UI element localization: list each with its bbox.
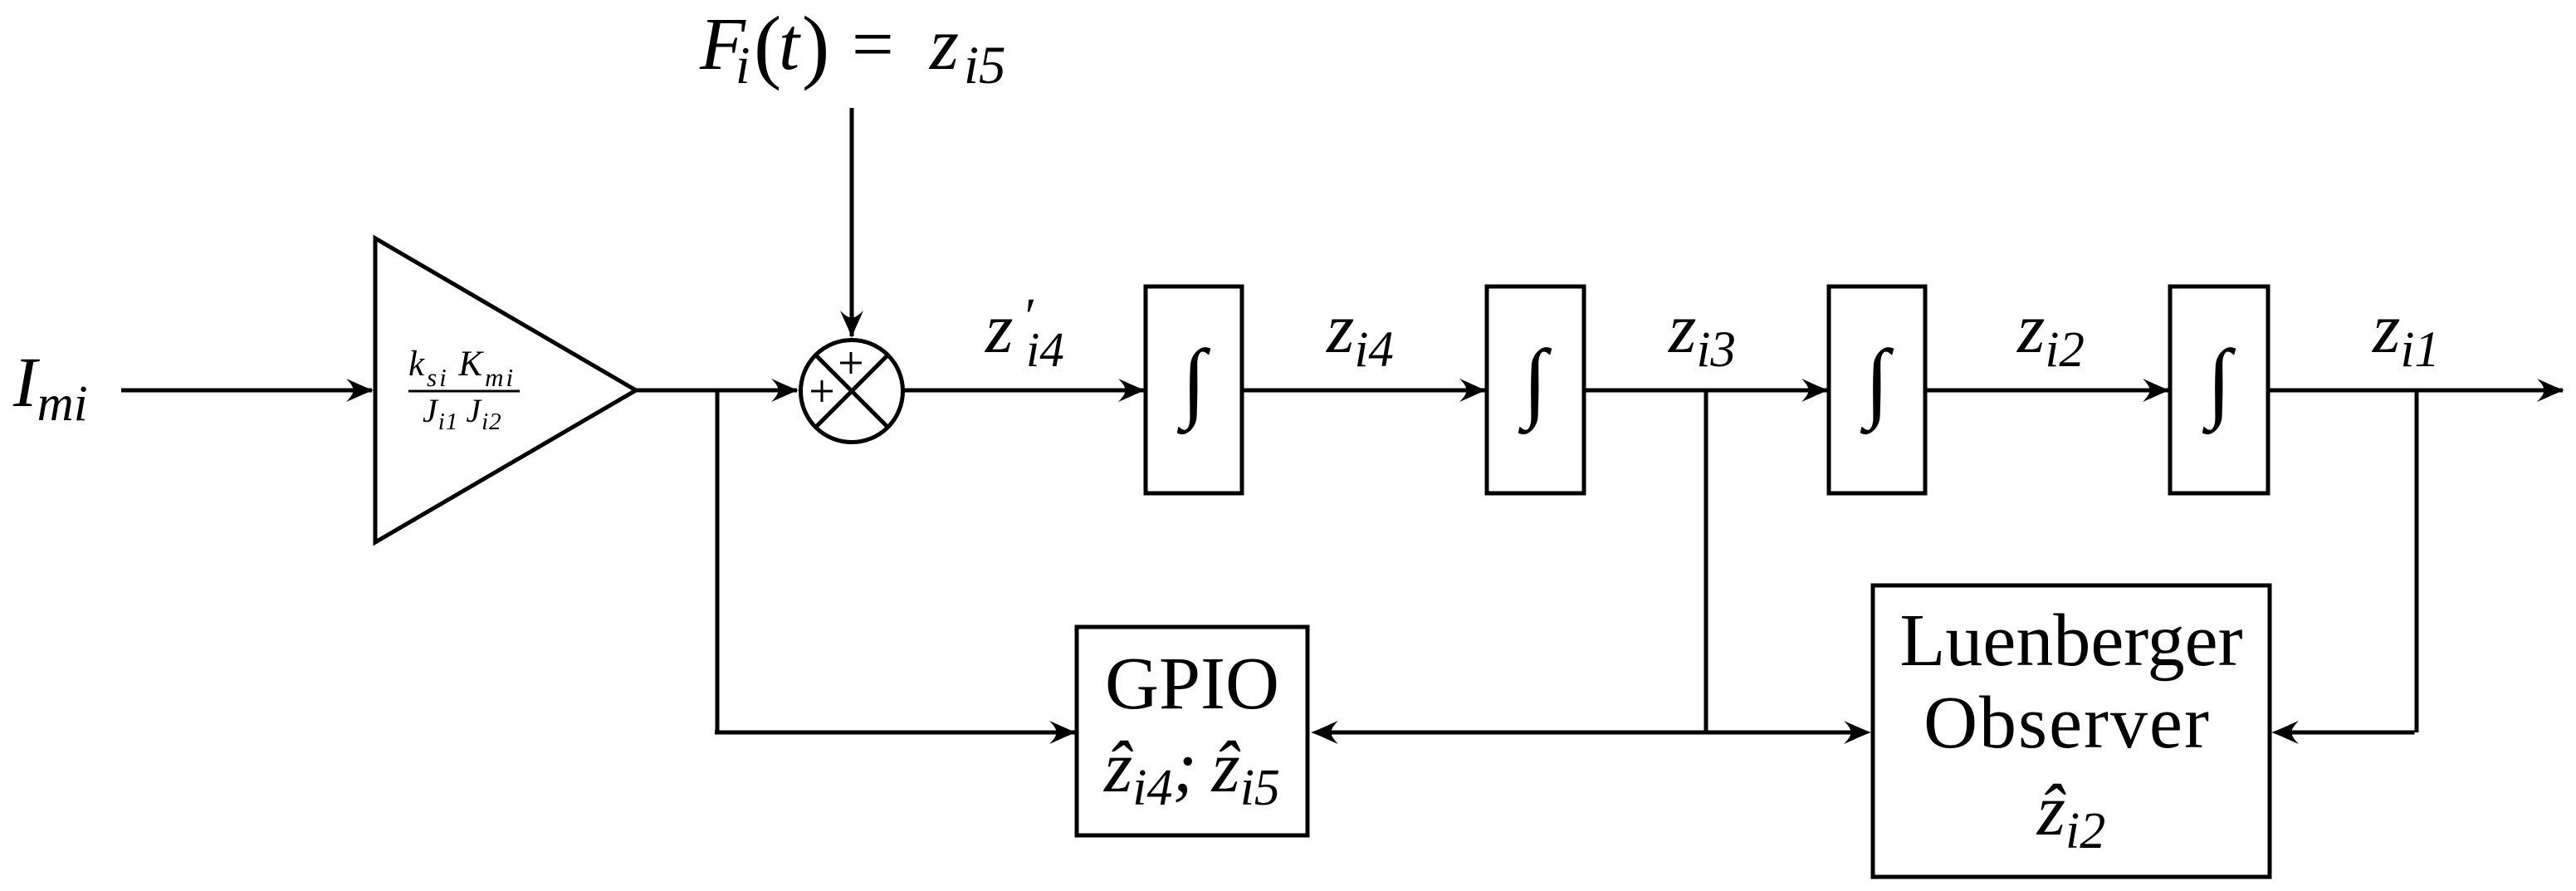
wire summer to integrator1, label z'i4: [903, 379, 1146, 402]
GPIO block: [1077, 627, 1308, 835]
value label gain fraction denominator J_i1 J_i2: [423, 392, 502, 435]
node label zi4: [1326, 288, 1394, 378]
svg-text:Observer: Observer: [1923, 682, 2211, 764]
node label zi2: [2016, 288, 2085, 378]
node label zi1: [2372, 288, 2440, 378]
svg-text:i4: i4: [1026, 322, 1064, 377]
wire integrator3 to integrator4: [1925, 379, 2170, 402]
gain block triangle ksiKmi/Ji1Ji2: [375, 238, 636, 542]
svg-text:): ): [802, 0, 829, 91]
integrator block 2: [1487, 286, 1584, 493]
wire integrator2 to integrator3: [1584, 379, 1829, 402]
wire Fi(t) arrow down into summer: [840, 108, 863, 338]
svg-text:∫: ∫: [1860, 333, 1894, 435]
wire zi3 branch down to feedback bus: [1704, 390, 1708, 732]
svg-text:=: =: [852, 3, 894, 86]
integrator block 1: [1146, 286, 1242, 493]
wire gain output to summer: [636, 379, 799, 402]
svg-text:(: (: [754, 0, 781, 91]
svg-text:i5: i5: [964, 36, 1006, 95]
node label z'i4: [985, 288, 1064, 377]
svg-text:t: t: [779, 3, 801, 86]
integrator block 3: [1829, 286, 1925, 493]
node label zi3: [1668, 288, 1736, 378]
wire bus GPIO to observer (double arrow): [1311, 721, 1871, 744]
value label gain fraction bar: [408, 390, 520, 393]
value label gain fraction numerator k_si K_mi: [408, 345, 516, 392]
summing junction circle with X: [801, 340, 903, 443]
integrator block 4: [2170, 286, 2268, 493]
svg-text:∫: ∫: [2202, 333, 2236, 435]
svg-text:Luenberger: Luenberger: [1899, 600, 2242, 682]
svg-text:z: z: [928, 3, 959, 86]
svg-text:∫: ∫: [1176, 333, 1210, 435]
node label Fi(t)=zi5: [699, 0, 1006, 95]
svg-text:∫: ∫: [1518, 333, 1552, 435]
svg-text:i: i: [736, 37, 750, 95]
wire zi1 branch down into observer right: [2271, 390, 2417, 744]
svg-text:z: z: [985, 288, 1013, 368]
wire integrator1 to integrator2: [1242, 379, 1487, 402]
Luenberger observer block: [1873, 585, 2270, 877]
summer plus sign left input: [811, 380, 833, 402]
summer plus sign top input: [840, 352, 862, 374]
node Imi input label: [12, 342, 88, 432]
wire output zi1: [2268, 379, 2564, 402]
svg-text:GPIO: GPIO: [1105, 643, 1279, 725]
wire input arrow Imi to gain: [121, 379, 374, 402]
wire branch down from gain output to GPIO: [715, 389, 1077, 744]
